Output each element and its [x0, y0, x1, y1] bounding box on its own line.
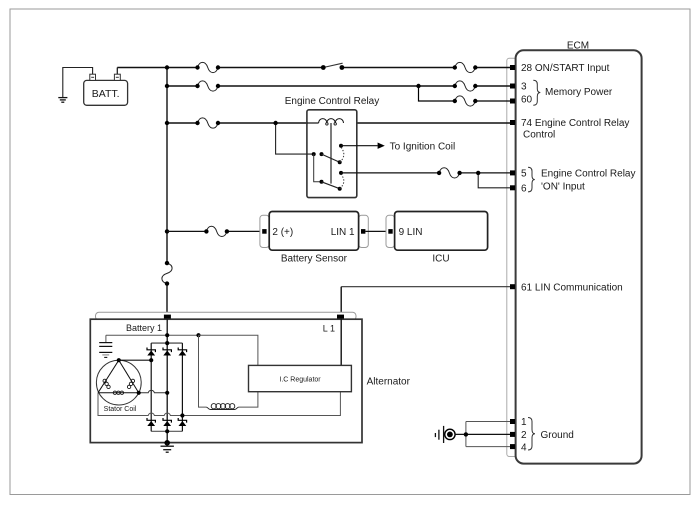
pin 60	[510, 99, 515, 104]
ignition switch	[323, 63, 342, 67]
svg-text:Battery 1: Battery 1	[126, 323, 162, 333]
svg-text:6: 6	[521, 183, 527, 194]
battery sensor left connector tab	[260, 215, 269, 247]
wire center leg B+	[166, 319, 168, 443]
svg-text:5: 5	[521, 169, 527, 180]
svg-text:28 ON/START Input: 28 ON/START Input	[521, 63, 610, 74]
wire ground to pin 2	[455, 433, 510, 435]
ECM connector strip	[507, 58, 518, 456]
ICU box	[395, 212, 488, 251]
wire bottom rail	[151, 430, 182, 432]
svg-text:ICU: ICU	[432, 254, 449, 265]
svg-text:I.C Regulator: I.C Regulator	[279, 377, 321, 384]
fusible link battery sensor	[204, 226, 229, 236]
diode D6	[178, 418, 186, 426]
wire top rail	[151, 342, 182, 344]
pin 3	[510, 84, 515, 89]
wire bus vertical	[166, 68, 168, 315]
pin 26	[510, 65, 515, 70]
ground (alternator internal)	[105, 335, 107, 342]
wire left leg	[150, 343, 152, 431]
battery sensor box	[269, 212, 358, 251]
ground (battery)	[58, 98, 67, 103]
brace memory power	[533, 80, 540, 105]
svg-text:'ON' Input: 'ON' Input	[541, 182, 585, 193]
fusible link relay output	[437, 168, 462, 178]
wire right leg	[181, 343, 183, 431]
pin 74	[510, 120, 515, 125]
battery BATT box	[84, 80, 128, 105]
pin 6	[510, 185, 515, 190]
pin 61	[510, 284, 515, 289]
ICU left connector tab	[386, 215, 395, 247]
stator coil circle	[96, 360, 141, 405]
fusible link line2 left	[195, 81, 220, 91]
node stator apex	[117, 358, 121, 362]
arrow head	[378, 143, 385, 149]
battery terminal positive	[114, 74, 120, 80]
relay armature center line	[330, 123, 332, 184]
svg-text:ECM: ECM	[567, 41, 589, 52]
wire line2 memory power	[167, 85, 510, 87]
fusible link bus vertical	[162, 261, 172, 286]
svg-text:60: 60	[521, 95, 533, 106]
wire field coil to regulator	[239, 392, 258, 407]
alternator box	[90, 319, 362, 442]
pin L 1	[337, 315, 344, 319]
fusible link pin3	[453, 81, 478, 91]
wire battery negative to ground	[63, 68, 93, 98]
svg-text:Alternator: Alternator	[367, 376, 411, 387]
stator winding loops	[103, 379, 135, 394]
node bus-line1 junction	[165, 65, 169, 69]
svg-text:Battery Sensor: Battery Sensor	[281, 254, 348, 265]
svg-text:Stator Coil: Stator Coil	[104, 406, 137, 413]
wire branch to pin 60	[419, 86, 511, 101]
diode D3	[178, 348, 186, 356]
svg-text:9 LIN: 9 LIN	[399, 227, 423, 238]
wire battery positive up	[116, 68, 118, 75]
battery sensor right connector tab	[359, 215, 369, 247]
fusible link line3	[195, 118, 220, 128]
wire line1 ON/START	[117, 67, 510, 69]
node bus-relay junction	[165, 121, 169, 125]
pin Battery 1	[164, 315, 171, 319]
svg-text:1: 1	[521, 417, 527, 428]
relay coil L	[307, 122, 319, 124]
pin 4	[510, 444, 515, 449]
svg-text:LIN 1: LIN 1	[331, 227, 355, 238]
diode D5	[163, 418, 171, 426]
diode D1	[147, 348, 155, 356]
svg-text:Ground: Ground	[541, 430, 574, 441]
wire bus to battery sensor	[167, 230, 262, 232]
node bus-line2 junction	[165, 84, 169, 88]
pin 2	[510, 432, 515, 437]
alternator connector strip	[96, 312, 357, 320]
diode D4	[147, 418, 155, 426]
svg-text:61 LIN Communication: 61 LIN Communication	[521, 282, 623, 293]
svg-text:Engine Control Relay: Engine Control Relay	[541, 169, 636, 180]
svg-text:2: 2	[521, 430, 527, 441]
wire branch to relay contact	[276, 123, 314, 154]
relay box	[307, 110, 357, 198]
fusible link pin60	[453, 96, 478, 106]
wire field coil loop top	[199, 335, 258, 365]
wire to ignition coil	[341, 145, 378, 147]
wire phase 3	[98, 392, 340, 416]
relay contact upper	[312, 152, 316, 156]
node bus-sensor junction	[165, 229, 169, 233]
junction	[416, 84, 420, 88]
svg-text:Control: Control	[523, 130, 555, 141]
brace ground	[528, 418, 535, 451]
svg-text:74 Engine Control Relay: 74 Engine Control Relay	[521, 118, 629, 129]
rotor field coil	[206, 407, 239, 409]
wire phase 2	[139, 390, 168, 392]
svg-text:3: 3	[521, 82, 527, 93]
wire line3 relay feed	[167, 122, 510, 124]
wire field coil loop left	[199, 335, 207, 407]
fusible link line1 left	[195, 62, 220, 72]
svg-text:To Ignition Coil: To Ignition Coil	[390, 142, 456, 153]
fusible link line1 right	[453, 62, 478, 72]
pin 5	[510, 170, 515, 175]
wire ground branches pins 1 and 4	[466, 422, 510, 447]
ground (alternator bottom)	[164, 440, 170, 446]
diode D2	[163, 348, 171, 356]
stator delta winding	[98, 360, 139, 393]
svg-text:Engine Control Relay: Engine Control Relay	[285, 96, 380, 107]
brace engine control relay ON input	[528, 167, 535, 192]
svg-text:Memory Power: Memory Power	[545, 87, 613, 98]
svg-text:2 (+): 2 (+)	[272, 227, 293, 238]
wire phase 1	[119, 359, 151, 361]
battery terminal negative	[90, 74, 96, 80]
wire ground link horizontal	[106, 334, 199, 336]
svg-text:L 1: L 1	[323, 323, 335, 333]
pin LIN 1 battery sensor	[361, 229, 365, 234]
chassis ground symbol	[435, 426, 443, 443]
pin 9 ICU	[388, 229, 392, 234]
wire relay lower contact link	[314, 154, 322, 182]
node B+ junctions	[165, 333, 169, 337]
wire LIN pin 61	[341, 286, 510, 288]
IC regulator box	[249, 365, 352, 391]
wire battery sensor to ICU	[365, 230, 390, 232]
wire relay output to ECM 5/6	[341, 172, 510, 174]
pin 1	[510, 419, 515, 424]
wire L1 to regulator	[340, 318, 342, 365]
svg-text:4: 4	[521, 442, 527, 453]
ECM box U1	[516, 50, 642, 463]
wire branch pin 6	[478, 173, 510, 188]
svg-text:BATT.: BATT.	[92, 88, 120, 100]
relay contact lower	[320, 180, 324, 184]
pin 2 battery sensor	[262, 229, 266, 234]
